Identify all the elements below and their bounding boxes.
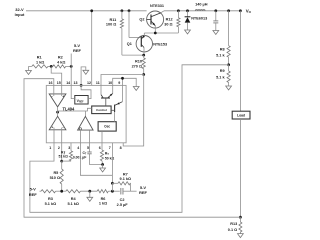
- op-amp error amplifier 2 (pins 1,2): [49, 116, 66, 130]
- wire pin 8 up to R10 bottom node: [123, 75, 144, 147]
- svg-text:8: 8: [120, 146, 122, 150]
- svg-text:5.1 kΩ: 5.1 kΩ: [67, 202, 79, 206]
- wire R1 to ground: [28, 66, 30, 70]
- resistor R7 9.1 k: [118, 182, 130, 185]
- wire pin 3 down to 51k: [70, 143, 72, 151]
- wire R5 bottom lead: [61, 184, 63, 191]
- junction R4/R6 ground: [88, 190, 91, 193]
- svg-text:−: −: [51, 95, 53, 99]
- junction EA outputs: [56, 111, 59, 114]
- wire pin 6 to oscillator: [101, 131, 103, 143]
- junction R3/R4/R5: [60, 190, 63, 193]
- resistor Rf 51 k (pin 3 feedback): [69, 151, 72, 161]
- junction R8/R9 feedback: [227, 63, 230, 66]
- svg-text:0.1 Ω: 0.1 Ω: [228, 228, 237, 232]
- wire pin 2 down: [61, 143, 63, 161]
- svg-text:NTE6013: NTE6013: [191, 17, 207, 21]
- op-amp U1 TL494 IC outline: [46, 85, 126, 142]
- wire VI to pin 12 (VCC): [91, 11, 93, 86]
- wire T2 down to Osc: [114, 112, 116, 122]
- wire pin1 into EA2: [53, 128, 55, 143]
- junction pin2/R5/51k: [60, 160, 63, 163]
- junction Q1/Q2 emitters: [154, 32, 157, 35]
- svg-text:7: 7: [109, 146, 111, 150]
- capacitor CT 0.001 uF: [87, 151, 91, 153]
- ground for pins 9/10: [133, 87, 139, 91]
- svg-text:140 µH: 140 µH: [195, 2, 208, 6]
- junction pin 9 / pin 10: [121, 77, 124, 80]
- svg-text:6: 6: [99, 146, 101, 150]
- resistor R1 1 k: [32, 65, 48, 68]
- svg-text:R7: R7: [123, 172, 128, 176]
- svg-text:2.5 µF: 2.5 µF: [117, 203, 129, 207]
- wire pin 6 down to RT: [101, 143, 103, 150]
- svg-text:9: 9: [118, 81, 120, 85]
- wire top rail right of Q2 collector to Vo: [164, 10, 240, 12]
- junction C2 row: [111, 190, 114, 193]
- junction rail/R8: [227, 9, 230, 12]
- svg-text:9.1 kΩ: 9.1 kΩ: [120, 177, 132, 181]
- inductor L1 140 uH: [195, 10, 205, 11]
- svg-text:NTE331: NTE331: [150, 4, 164, 8]
- wire R1 left lead: [29, 65, 32, 67]
- VREF regulator box: [75, 96, 88, 105]
- svg-text:100 Ω: 100 Ω: [106, 23, 116, 27]
- svg-text:1 kΩ: 1 kΩ: [36, 60, 44, 64]
- svg-text:4 kΩ: 4 kΩ: [57, 60, 65, 64]
- wire R2 right lead: [66, 65, 72, 67]
- Q2 emitter arrow (npn): [152, 23, 155, 26]
- junction R7/C2/pin7: [111, 182, 114, 185]
- svg-text:Input: Input: [15, 12, 25, 17]
- transistor internal output T1 (pins 11,10): [101, 97, 110, 99]
- comparator PWM/dead-time (apex up): [78, 116, 94, 130]
- svg-text:2: 2: [58, 146, 60, 150]
- diode D1 NTE6013: [185, 16, 191, 18]
- wire pin2 into EA2: [61, 128, 63, 143]
- svg-text:15: 15: [57, 81, 61, 85]
- wire to ground: [102, 165, 104, 169]
- resistor R12 30 ohm: [177, 18, 180, 27]
- svg-text:5.1 k: 5.1 k: [216, 76, 225, 80]
- wire pin 5 down to CT: [89, 143, 91, 152]
- svg-text:270 Ω: 270 Ω: [132, 64, 142, 68]
- wire R3-R4: [56, 190, 66, 192]
- wire Vo down to load: [239, 11, 241, 111]
- junction rail/load line: [239, 9, 242, 12]
- junction Q1 collector / R11 / R10: [142, 54, 145, 57]
- svg-text:−: −: [62, 126, 64, 130]
- wire pin 13 to VREF box right: [81, 85, 91, 98]
- wire pin16 into EA1: [53, 85, 55, 96]
- wire to Q1 collector node: [122, 54, 144, 56]
- junction R10 / pin11 / pin8: [142, 73, 145, 76]
- wire pin 7 down to soft-start node: [111, 143, 113, 184]
- wire to R7: [112, 182, 118, 184]
- resistor R11 100 ohm: [120, 19, 123, 28]
- junction pin 13 at IC edge: [80, 84, 83, 87]
- resistor R4 5.1 k: [66, 190, 81, 193]
- wire soft-start node down: [111, 183, 113, 191]
- wire to ground: [89, 191, 91, 197]
- ground R4/R6 node: [87, 197, 93, 201]
- wire R9 to ground: [228, 83, 230, 87]
- wire comparator to EA line: [84, 111, 86, 116]
- resistor R13 0.1 ohm: [239, 222, 242, 232]
- resistor RT 50 k: [100, 150, 103, 161]
- svg-text:R2: R2: [58, 56, 63, 60]
- ground RT/CT: [100, 168, 106, 172]
- svg-text:Osc: Osc: [104, 125, 110, 129]
- junction return rail / R13: [239, 216, 242, 219]
- svg-text:R5: R5: [53, 171, 58, 175]
- wire Q1 emitter up to switch node line: [143, 33, 145, 36]
- svg-text:R13: R13: [230, 222, 237, 226]
- wire EA1 out to EA2 out: [57, 107, 59, 116]
- svg-text:R12: R12: [166, 18, 173, 22]
- resistor R2 4 k: [53, 65, 66, 68]
- wire feedback R8/R9 junction to pin 1: [30, 65, 229, 213]
- svg-text:30 Ω: 30 Ω: [164, 23, 172, 27]
- capacitor output filter: [213, 20, 218, 22]
- svg-text:5.1 kΩ: 5.1 kΩ: [45, 202, 57, 206]
- wire pin 11 to R10 bottom node: [101, 75, 144, 86]
- svg-text:NTE153: NTE153: [153, 43, 167, 47]
- svg-text:5-V: 5-V: [30, 186, 37, 191]
- wire diode anode to ground: [187, 23, 189, 30]
- wire R5 top lead: [61, 161, 63, 169]
- wire VI to Q1 base: [128, 11, 130, 38]
- ground below R1: [26, 71, 32, 75]
- wire REF stub: [70, 54, 72, 67]
- svg-text:Q2: Q2: [139, 17, 144, 21]
- junction rail/R12: [177, 9, 180, 12]
- svg-text:R1: R1: [37, 56, 42, 60]
- wire R8 top lead: [228, 11, 230, 46]
- node A divider midpoint: [50, 65, 53, 68]
- svg-text:3: 3: [68, 146, 70, 150]
- resistor R5 510 ohm: [60, 169, 63, 184]
- junction VI/pin12: [90, 9, 93, 12]
- svg-text:REF: REF: [29, 192, 38, 197]
- wire pin 5 to comparator: [89, 130, 91, 143]
- svg-text:REF: REF: [73, 48, 82, 53]
- wire output cap bottom lead: [215, 23, 217, 31]
- oscillator box: [98, 122, 116, 131]
- svg-text:14: 14: [66, 81, 70, 85]
- wire R1-R2: [48, 65, 53, 67]
- resistor R8 5.1 k: [227, 46, 230, 58]
- svg-text:5.1 k: 5.1 k: [216, 54, 225, 58]
- transistor Q2 NTE331 (NPN): [147, 11, 164, 28]
- wire Q1 base lead: [129, 37, 141, 39]
- ground at pin 13: [83, 70, 89, 74]
- wire load to return rail: [239, 119, 241, 217]
- transistor Q1 NTE153 (PNP): [136, 36, 152, 52]
- junction VI/R11: [121, 9, 124, 12]
- svg-text:R8: R8: [220, 47, 225, 51]
- transistor internal output T2 (pin 9): [114, 105, 116, 113]
- svg-text:510 Ω: 510 Ω: [50, 176, 60, 180]
- junction rail/diode: [186, 9, 189, 12]
- junction VI/Q1 base: [128, 9, 131, 12]
- svg-text:+: +: [62, 95, 64, 99]
- svg-text:R10: R10: [135, 59, 142, 63]
- svg-text:1 kΩ: 1 kΩ: [99, 202, 107, 206]
- wire to pin 14: [70, 66, 72, 85]
- svg-text:11: 11: [96, 81, 100, 85]
- ground below R13: [238, 234, 244, 238]
- junction R2 / REF stub / pin 14: [70, 65, 73, 68]
- svg-text:VO: VO: [246, 8, 252, 14]
- wire C2 to 5-V REF: [123, 190, 137, 192]
- ground below output cap: [213, 31, 219, 35]
- svg-text:10: 10: [108, 81, 112, 85]
- svg-text:R3: R3: [48, 197, 53, 201]
- wire R7 right end down: [129, 183, 131, 191]
- svg-text:5: 5: [87, 146, 89, 150]
- wire R4 to R6: [80, 190, 97, 192]
- wire R11 bottom to Q1 collector node: [121, 28, 123, 55]
- wire pin 16 to R13 current sense / return rail: [24, 79, 240, 218]
- wire R12 bottom lead: [177, 27, 179, 33]
- resistor R6 1 k: [97, 190, 108, 193]
- control logic box: [92, 106, 111, 114]
- wire output cap top lead: [215, 11, 217, 21]
- wire pins 10/9 to ground: [113, 78, 137, 86]
- svg-text:50 kΩ: 50 kΩ: [105, 156, 115, 160]
- wire node A to pin 15: [51, 66, 62, 85]
- wire pin 13 to ground: [81, 67, 86, 86]
- Q1 emitter arrow (pnp): [142, 35, 145, 38]
- svg-text:0.001 µF: 0.001 µF: [73, 155, 86, 159]
- svg-text:16: 16: [49, 81, 53, 85]
- svg-text:R9: R9: [220, 69, 225, 73]
- ground below R9: [226, 86, 232, 90]
- wire EA output to control box: [58, 108, 92, 111]
- wire R6 to C2: [108, 190, 120, 192]
- svg-text:Control: Control: [96, 108, 107, 112]
- svg-text:Q1: Q1: [127, 42, 132, 46]
- svg-text:13: 13: [74, 81, 78, 85]
- svg-text:Load: Load: [237, 113, 245, 117]
- svg-text:12: 12: [87, 81, 91, 85]
- op-amp error amplifier 1 (pins 16,15): [49, 94, 66, 107]
- wire Q2 emitter down: [154, 26, 156, 33]
- wire R11 top lead: [121, 11, 123, 19]
- svg-text:51 kΩ: 51 kΩ: [58, 155, 68, 159]
- svg-text:REF: REF: [139, 190, 148, 195]
- wire pin 4 to soft-start node: [80, 143, 112, 176]
- wire R13 top lead: [239, 217, 241, 222]
- wire CT to ground node: [90, 154, 103, 165]
- wire emitter node line: [144, 32, 178, 34]
- svg-text:4: 4: [77, 146, 79, 150]
- svg-text:1: 1: [49, 146, 51, 150]
- svg-text:C2: C2: [120, 198, 125, 202]
- wire R12 top lead: [177, 11, 179, 18]
- svg-text:R11: R11: [110, 18, 117, 22]
- wire pin 14 to VREF box: [71, 85, 75, 98]
- resistor R9 5.1 k: [227, 71, 230, 83]
- resistor R3 5.1 k: [41, 190, 56, 193]
- wire pin15 into EA1: [61, 85, 63, 96]
- svg-text:+: +: [51, 126, 53, 130]
- wire REF to R3: [40, 190, 42, 192]
- capacitor C2 2.5 uF: [120, 188, 122, 195]
- resistor R10 270 ohm: [142, 58, 145, 69]
- wire pin 4 to comparator bubble: [79, 130, 81, 143]
- wire diode cathode lead: [187, 11, 189, 17]
- ground below diode: [185, 30, 191, 34]
- load box: [232, 111, 250, 119]
- svg-text:R6: R6: [101, 197, 106, 201]
- junction RT/CT ground: [101, 163, 104, 166]
- junction rail/output cap: [214, 9, 217, 12]
- wire pin2 node to 51k: [62, 160, 71, 162]
- wire 32-V input rail (left of Q2): [26, 10, 147, 12]
